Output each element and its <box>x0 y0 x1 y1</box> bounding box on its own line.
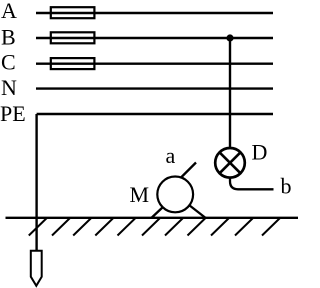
fuse FU1 on phase A <box>51 7 95 18</box>
motor M body <box>157 177 193 213</box>
wire tap from phase B down to lamp <box>229 38 231 150</box>
svg-text:B: B <box>1 25 16 50</box>
wire phase B <box>36 37 273 39</box>
svg-text:C: C <box>1 50 16 75</box>
fuse FU2 on phase B <box>51 32 95 43</box>
wire a to motor <box>179 163 196 180</box>
wire phase A <box>36 12 273 14</box>
junction node on phase B <box>226 34 233 41</box>
ground hatching <box>29 218 280 236</box>
wire PE <box>37 113 273 115</box>
lamp D cross stroke 1 <box>220 152 241 173</box>
svg-text:M: M <box>130 182 150 207</box>
svg-text:b: b <box>281 173 292 198</box>
fuse FU3 on phase C <box>51 58 95 69</box>
motor mounting leg right <box>189 205 206 218</box>
svg-text:D: D <box>252 139 268 164</box>
earth electrode rod <box>31 251 42 286</box>
svg-text:PE: PE <box>0 101 26 126</box>
motor mounting leg left <box>151 207 163 219</box>
wire PE drop to earth electrode <box>35 114 37 251</box>
wire neutral N <box>36 87 273 89</box>
svg-text:N: N <box>1 75 17 100</box>
wire lamp to terminal b <box>230 178 274 189</box>
ground surface line <box>6 217 299 219</box>
wire phase C <box>36 63 273 65</box>
lamp D cross stroke 2 <box>220 152 241 173</box>
svg-text:A: A <box>1 0 17 23</box>
lamp D body <box>215 148 245 178</box>
svg-text:a: a <box>166 143 176 168</box>
